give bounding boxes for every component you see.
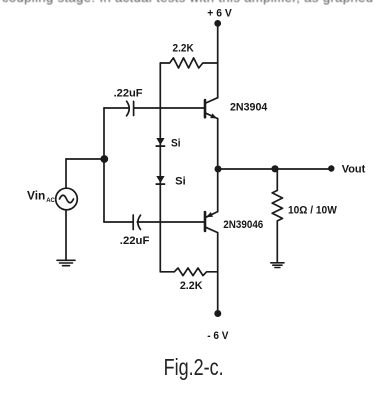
arrow emitter Q2 xyxy=(206,212,213,217)
capacitor C1 .22uF curved plate xyxy=(127,101,130,116)
wire emitter rail Q1-Q2 xyxy=(217,119,219,212)
node load junction dot xyxy=(271,165,278,172)
wire collector Q2 diagonal xyxy=(206,227,218,232)
wire output line xyxy=(218,168,331,170)
wire bias string vertical xyxy=(159,63,161,272)
ground G1 (source) xyxy=(57,260,75,265)
svg-text:AC: AC xyxy=(46,198,55,204)
wire Vin source bottom lead xyxy=(65,210,67,260)
wire collector Q2 vertical to -6V xyxy=(217,233,219,313)
svg-text:.22uF: .22uF xyxy=(120,235,150,247)
svg-text:Vout: Vout xyxy=(342,163,366,175)
svg-text:+ 6 V: + 6 V xyxy=(207,8,232,20)
svg-text:Fig.2-c.: Fig.2-c. xyxy=(164,354,224,380)
wire top base line xyxy=(104,107,204,109)
resistor R2 2.2K bottom xyxy=(160,268,217,276)
svg-text:.22uF: .22uF xyxy=(114,88,143,100)
svg-text:2.2K: 2.2K xyxy=(180,280,203,292)
svg-text:- 6 V: - 6 V xyxy=(207,330,229,342)
wire +6V rail xyxy=(217,27,219,98)
cropped caption text (top edge, cut off) xyxy=(2,0,380,5)
transistor Q1 base bar xyxy=(204,100,207,117)
wire collector Q1 diagonal xyxy=(206,98,218,103)
AC source V1 circle xyxy=(56,188,78,210)
svg-text:Vin: Vin xyxy=(27,189,45,203)
svg-text:2.2K: 2.2K xyxy=(173,42,194,54)
diode D2 Si xyxy=(156,176,164,183)
ground G2 (load) xyxy=(271,263,284,268)
AC source sine xyxy=(60,195,74,203)
svg-text:Si: Si xyxy=(171,138,181,150)
node output junction dot xyxy=(215,166,222,173)
svg-text:Si: Si xyxy=(175,176,186,188)
wire Vin horizontal xyxy=(66,158,104,160)
node -6V terminal dot xyxy=(214,310,221,317)
wire emitter Q1 diagonal xyxy=(206,113,218,118)
resistor R3 10ohm lead + zigzag xyxy=(272,169,282,263)
wire emitter Q2 diagonal xyxy=(206,212,218,218)
capacitor C2 straight plate xyxy=(132,215,134,230)
wire Vin source top lead xyxy=(65,159,67,188)
svg-text:2N3904: 2N3904 xyxy=(230,102,268,114)
node Vout terminal dot xyxy=(328,165,334,171)
capacitor C1 straight plate xyxy=(133,101,135,115)
wire left input vertical xyxy=(103,108,105,222)
diode D1 Si xyxy=(156,138,164,145)
node Vin junction dot xyxy=(100,155,108,163)
arrow emitter Q1 xyxy=(210,113,217,118)
resistor R1 2.2K top xyxy=(160,58,217,68)
svg-text:10Ω / 10W: 10Ω / 10W xyxy=(288,205,337,217)
svg-text:2N39046: 2N39046 xyxy=(223,219,263,231)
capacitor C2 curved plate xyxy=(138,215,141,229)
node +6V terminal dot xyxy=(214,20,221,27)
transistor Q2 base bar xyxy=(204,212,207,231)
wire bottom base line xyxy=(104,221,204,223)
